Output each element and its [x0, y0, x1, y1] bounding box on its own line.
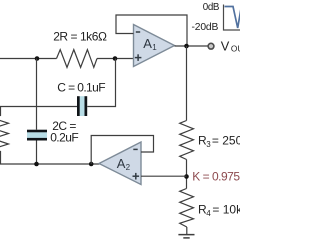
- wire: input line top-left at y=58.5: [0, 58, 57, 60]
- graph: notch response curve: [225, 6, 242, 29]
- resistor R (left edge, cut off): [0, 107, 9, 165]
- capacitor 2C 0.2uF (teal dielectric): [27, 132, 47, 138]
- svg-text:K = 0.975: K = 0.975: [192, 170, 240, 184]
- node: K junction: [184, 174, 189, 179]
- svg-text:= 10k: = 10k: [212, 202, 240, 216]
- svg-text:V: V: [221, 38, 230, 53]
- wire: A1 output: [175, 45, 208, 47]
- op-amp A2 (mirrored, points left): [99, 142, 141, 185]
- graph: axes: [224, 5, 241, 31]
- wire: output column down to R3: [186, 46, 188, 121]
- svg-text:A: A: [117, 156, 126, 171]
- wire: R3 to K node: [186, 160, 188, 189]
- wire: 2C down to bottom rail: [36, 141, 38, 165]
- wire: A2 feedback loop: [91, 136, 153, 165]
- wire: 2R to A1 plus input: [97, 58, 134, 60]
- wire: A1 feedback loop: [116, 15, 187, 46]
- wire: vertical branch x=36.5 from top junction to 2C: [36, 59, 38, 130]
- svg-text:= 2500: = 2500: [212, 134, 240, 148]
- wire: left segment of C row: [0, 106, 77, 108]
- node: junction bottom rail at x=90.5: [89, 162, 94, 167]
- svg-text:0dB: 0dB: [203, 2, 220, 13]
- node: junction bottom rail at x=36.5: [34, 162, 39, 167]
- svg-text:-20dB: -20dB: [192, 22, 219, 33]
- node: output junction: [184, 44, 189, 49]
- capacitor C 0.1uF (teal dielectric): [80, 96, 85, 116]
- svg-text:0.2uF: 0.2uF: [50, 131, 78, 145]
- svg-text:OUT: OUT: [231, 43, 240, 53]
- wire: bottom rail y=164: [0, 163, 100, 165]
- terminal VOUT: [208, 43, 214, 49]
- wire: A2 + input to K node: [141, 175, 187, 177]
- ground: [178, 234, 194, 236]
- resistor R4: [180, 189, 194, 228]
- resistor 2R: [57, 50, 98, 68]
- wire: R4 to ground: [186, 227, 188, 234]
- wire: vertical from junction down and left to cap C: [87, 59, 115, 107]
- svg-text:C = 0.1uF: C = 0.1uF: [57, 80, 105, 94]
- node: junction top-left: [35, 56, 40, 61]
- svg-text:2: 2: [126, 163, 131, 172]
- svg-text:3: 3: [206, 140, 211, 149]
- op-amp A1: [134, 25, 175, 67]
- svg-text:1: 1: [152, 43, 157, 52]
- svg-text:2R = 1k6Ω: 2R = 1k6Ω: [53, 29, 107, 43]
- node: junction at A1 + input: [113, 56, 118, 61]
- resistor R3: [180, 121, 194, 160]
- svg-text:A: A: [143, 36, 152, 51]
- svg-text:4: 4: [206, 209, 211, 218]
